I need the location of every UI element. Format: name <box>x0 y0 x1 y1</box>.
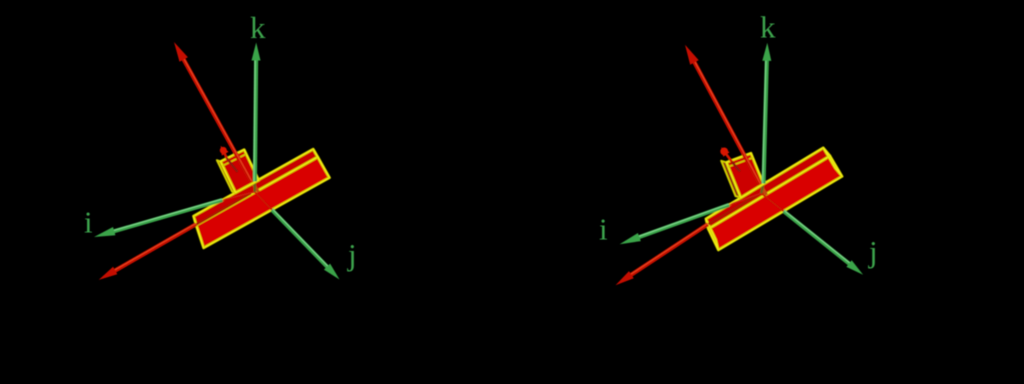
k-axis arrow <box>255 57 256 182</box>
occluded red segment of up-left vector <box>760 185 766 196</box>
small red omega arrow: head <box>220 147 227 154</box>
occluded red segment of down-left vector <box>705 195 758 227</box>
stem left side face <box>217 160 236 192</box>
occluded k-axis segment <box>761 184 763 194</box>
j-axis arrow <box>784 211 853 266</box>
svg-text:i: i <box>599 212 608 247</box>
bar top face <box>706 148 830 229</box>
stem top face <box>726 153 763 198</box>
svg-text:j: j <box>347 237 357 272</box>
bar left end cap <box>194 216 204 248</box>
bar right end cap <box>313 149 329 178</box>
occluded j-axis segment <box>761 193 783 211</box>
stem left side face <box>721 161 741 198</box>
small red omega arrow: shaft <box>223 150 226 157</box>
stem free-end cap edge <box>728 158 753 167</box>
bar left end cap <box>706 219 719 250</box>
stem top face <box>221 150 259 193</box>
svg-text:j: j <box>868 234 878 269</box>
bar top face <box>194 149 318 225</box>
small red omega arrow: head <box>720 148 728 156</box>
small red omega arrow: occluded shaft in stem <box>227 158 238 172</box>
occluded k-axis segment <box>253 181 256 192</box>
occluded j-axis segment <box>255 192 272 210</box>
bar right end cap <box>823 148 842 177</box>
svg-text:i: i <box>84 205 93 240</box>
occluded i-axis segment <box>222 192 254 200</box>
red vector down-left arrow <box>628 224 708 277</box>
stem free-end cap edge <box>223 154 247 166</box>
occluded i-axis segment <box>729 193 761 205</box>
k-axis arrow <box>764 57 767 184</box>
red vector up-left arrow <box>693 59 761 185</box>
occluded red segment of up-left vector <box>252 182 259 192</box>
bar front side face <box>708 156 842 250</box>
i-axis arrow <box>636 205 729 239</box>
small red omega arrow: occluded shaft in stem <box>732 162 740 172</box>
svg-text:k: k <box>250 10 266 45</box>
occluded red segment of down-left vector <box>193 193 251 226</box>
small red omega arrow: shaft <box>724 151 732 161</box>
red vector down-left arrow <box>112 224 196 272</box>
svg-text:k: k <box>760 10 776 45</box>
i-axis arrow <box>110 200 222 232</box>
bar front side face <box>196 157 329 248</box>
red vector up-left arrow <box>182 56 252 182</box>
j-axis arrow <box>272 210 330 270</box>
